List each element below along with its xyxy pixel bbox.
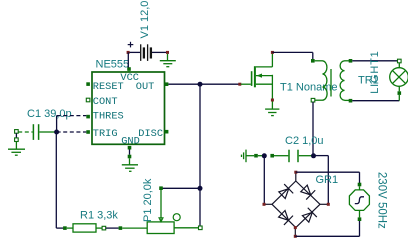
junction OUT [198,82,203,87]
label TR1 [358,74,379,86]
wire OUT vertical to P1 [199,84,201,226]
svg-text:CONT: CONT [93,96,118,108]
ground at C2 rotated [242,150,263,163]
pin label RESET [93,81,124,93]
svg-text:GR1: GR1 [316,174,339,186]
pin GND square [128,146,132,150]
pin label DISC [138,128,163,140]
label P1 20,0k [142,178,154,222]
svg-text:THRES: THRES [93,110,124,122]
pin label CONT [93,96,118,108]
red pin end battery left [127,51,130,54]
lamp LIGHT1 [390,59,408,100]
wire junction to bridge right [314,156,329,205]
battery plus sign [128,42,134,48]
wire R1 to P1 [106,226,148,230]
label T1 Noname [280,82,337,94]
wire bridge bottom to AC source [295,221,359,236]
transformer TR1 secondary winding [340,59,352,103]
wire secondary top to lamp [352,60,399,62]
transformer TR1 primary winding [311,59,327,102]
red pin end source [271,99,274,102]
svg-text:R1 3,3k: R1 3,3k [80,209,118,221]
pin DISC square [165,130,169,134]
label R1 3,3k [80,209,118,221]
wire drain to transformer [272,52,312,60]
junction C2 right [311,153,316,158]
svg-text:GND: GND [121,136,140,148]
wire C1 node down to R1 [56,132,65,228]
wire secondary bottom to lamp [352,100,399,102]
node C1 left open squares [15,130,19,142]
wire wiper horizontal [163,187,201,189]
red pin end gate [238,83,241,86]
diode D3 bottom-left [277,209,293,225]
pin VCC square [127,67,131,72]
pin OUT square [165,82,169,86]
label C1 39,0p [27,108,72,120]
diode D4 bottom-right [301,208,317,224]
ground at 555 GND [122,158,138,171]
pin CONT open square [86,98,90,102]
svg-text:TRIG: TRIG [93,128,118,140]
battery V1 [128,44,167,61]
pin label VCC [120,72,139,84]
ground at source [265,102,279,116]
wire THRES vertical [56,116,58,132]
wire transformer bottom down [312,102,314,156]
wire OUT to gate [168,83,239,85]
pin RESET square [86,82,90,86]
label 230V 50Hz [375,172,387,229]
junction wiper [198,186,203,191]
label V1 12,0 [139,1,151,39]
svg-text:OUT: OUT [136,81,155,93]
ground at battery minus [160,54,176,67]
pin label GND [121,136,140,148]
red pin end bridge left [263,203,266,206]
svg-text:C2 1,0u: C2 1,0u [285,135,324,147]
wire battery to VCC [127,52,129,67]
red pin end drain [271,51,274,54]
IC U1 NE555 body [92,72,165,144]
label C2 1,0u [285,135,324,147]
wire junction left to bridge left [263,156,265,205]
wire bridge top to AC source [296,172,360,183]
svg-text:DISC: DISC [138,128,163,140]
red pin end bridge top [294,171,297,174]
wire dashed to THRES [57,115,87,117]
pin label TRIG [93,128,118,140]
svg-text:230V 50Hz: 230V 50Hz [375,172,387,229]
potentiometer P1 [147,186,202,233]
red pin end battery right [166,51,169,54]
wire 555 GND to ground [128,150,132,159]
label NE555 [96,58,130,70]
transformer core [330,69,332,97]
ground at C1 [8,142,25,156]
transistor T1 MOSFET [241,52,273,100]
diode D2 top-right [299,184,315,200]
pin label OUT [136,81,155,93]
red pin end bridge right [327,203,330,206]
resistor R1 [63,224,106,232]
junction C2 left [262,153,267,158]
capacitor C2 [270,150,311,163]
svg-text:LIGHT1: LIGHT1 [369,50,381,93]
label GR1 [316,174,339,186]
label LIGHT1 [369,50,381,93]
svg-text:C1 39,0p: C1 39,0p [27,108,72,120]
svg-text:V1 12,0: V1 12,0 [139,1,151,39]
wire dashed to TRIG [57,131,87,133]
svg-text:P1 20,0k: P1 20,0k [142,178,154,222]
svg-text:RESET: RESET [93,81,124,93]
AC source 230V octagon [349,183,369,221]
pin THRES square [86,115,90,119]
capacitor C1 [18,124,54,140]
red pin end bridge bottom [294,226,297,229]
junction C1 node [54,130,59,135]
bridge rectifier GR1 diamond [264,172,328,236]
red pin end bridge bottom corner [294,235,297,238]
diode D1 top-left [277,184,293,200]
pin label THRES [93,110,124,122]
svg-text:NE555: NE555 [96,58,130,70]
svg-text:T1 Noname: T1 Noname [280,82,337,94]
pin TRIG square [86,130,90,134]
